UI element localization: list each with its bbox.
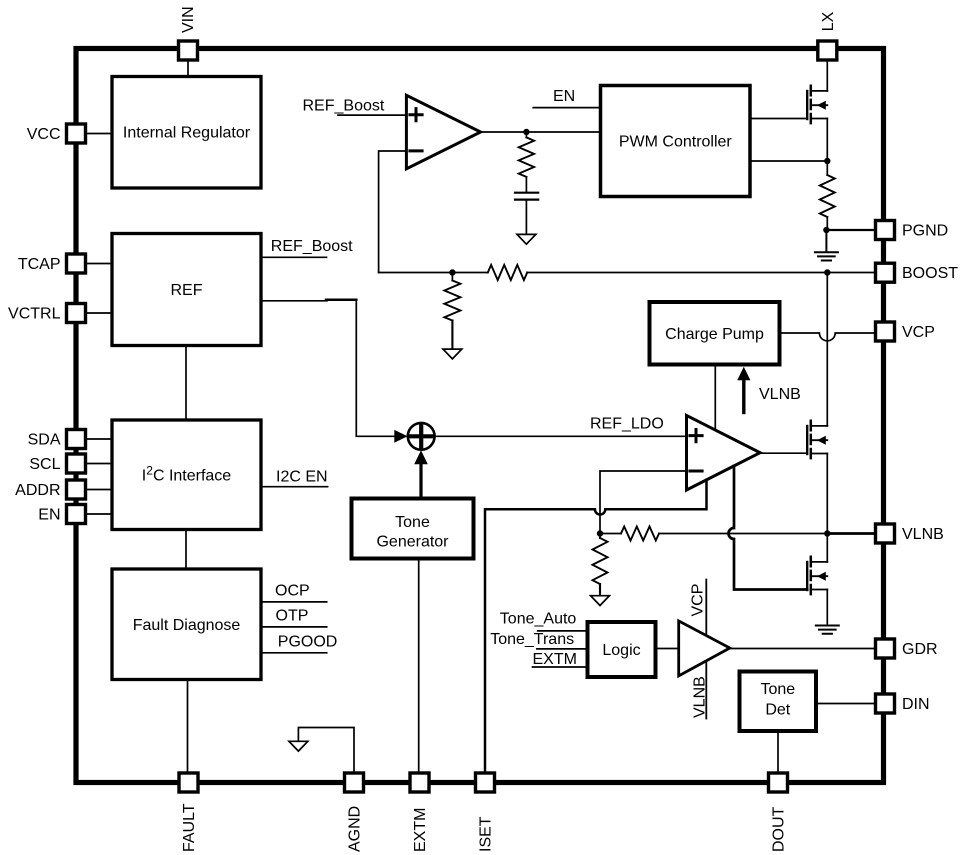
svg-text:TCAP: TCAP [18, 256, 61, 273]
pin SCL [67, 454, 86, 473]
svg-text:Det: Det [765, 701, 790, 718]
wire VLNB label line from buffer bottom [705, 661, 707, 719]
wire Charge Pump bottom to op-amp supply [714, 365, 716, 431]
svg-text:GDR: GDR [902, 641, 938, 658]
pin SDA [67, 430, 86, 449]
ground arrow under C1 [517, 234, 536, 244]
wire PWM lower output to Q1 source node [750, 160, 827, 162]
wire REF to I2C [185, 346, 187, 421]
wire ADDR to I2C [86, 489, 112, 491]
node Q1 source junction [824, 158, 830, 164]
svg-text:SCL: SCL [29, 456, 60, 473]
wire gate feedback with hop to Q3 gate [729, 466, 808, 590]
svg-text:OCP: OCP [275, 583, 310, 600]
pin DIN [876, 694, 895, 713]
wire VLNB node to Q3 drain [826, 534, 828, 562]
wire LX pin to Q1 drain [826, 61, 828, 91]
buffer U3 gate driver [679, 621, 730, 676]
wire PGND node to PGND pin [826, 229, 875, 231]
pin VIN [179, 41, 198, 60]
wire Q2 source to VLNB node [826, 454, 828, 534]
svg-text:VCP: VCP [690, 584, 707, 617]
chip boundary [76, 49, 884, 783]
ground arrow under R6 [591, 596, 610, 606]
wire BOOST node down to Q2 drain [826, 273, 828, 426]
ground arrow under R3 [443, 349, 462, 359]
transistor Q3 pull-down device [807, 557, 827, 594]
svg-text:EN: EN [38, 507, 60, 524]
wire comparator - feedback to BOOST net [379, 151, 407, 273]
ground Q3 symbol [816, 626, 839, 634]
transistor Q1 high-side switch [807, 86, 827, 123]
block U_TG Tone Generator [352, 499, 474, 559]
arrow VLNB into Charge Pump [742, 379, 745, 413]
wire Tone Generator to EXTM pin [418, 559, 420, 773]
svg-text:SDA: SDA [28, 432, 61, 449]
wire REF_Boost stub from REF [261, 256, 327, 258]
wire EN stub into PWM [533, 107, 600, 109]
wire buffer to GDR pin [730, 648, 875, 650]
svg-text:AGND: AGND [347, 806, 364, 852]
wire PGOOD stub [261, 652, 327, 654]
svg-text:LX: LX [820, 11, 837, 31]
svg-text:I2C EN: I2C EN [276, 469, 328, 486]
svg-text:Internal Regulator: Internal Regulator [123, 125, 251, 142]
svg-text:Logic: Logic [602, 642, 640, 659]
wire op-amp output to Q2 gate [760, 452, 807, 454]
wire Tone_Trans stub [537, 648, 588, 650]
wire Q1 source to R4 [826, 119, 828, 176]
wire REF_LDO net: summing node to op-amp + input [435, 435, 687, 437]
block U_PWM PWM Controller [601, 86, 751, 197]
svg-text:Tone: Tone [395, 514, 430, 531]
wire comparator output to PWM [481, 131, 601, 133]
pin ISET [476, 773, 495, 792]
svg-text:DOUT: DOUT [771, 806, 788, 852]
wire Q3 source to ground [826, 590, 828, 626]
wire op-amp - feedback [600, 471, 687, 534]
transistor Q2 LNB pass device [807, 421, 827, 458]
wire EXTM stub [533, 666, 588, 668]
wire VCP label line to buffer top [705, 580, 707, 636]
svg-text:REF_LDO: REF_LDO [590, 416, 664, 433]
svg-text:EXTM: EXTM [412, 808, 429, 852]
wire EN pin to I2C [86, 513, 112, 515]
svg-text:ADDR: ADDR [15, 482, 60, 499]
wire Charge Pump to VCP pin with hop [780, 333, 876, 341]
pin TCAP [67, 254, 86, 273]
arrow Tone Generator into summing node [419, 463, 422, 499]
wire OCP stub [261, 601, 327, 603]
pin EN [67, 505, 86, 524]
node BOOST right junction [824, 269, 830, 275]
svg-text:REF: REF [171, 282, 203, 299]
svg-text:VCC: VCC [27, 126, 61, 143]
wire SDA to I2C [86, 438, 112, 440]
pins: squares on boundary [67, 41, 895, 792]
wire I2C to Fault Diagnose [185, 530, 187, 570]
wire REF output to summing node [261, 300, 327, 302]
block U_Fault Fault Diagnose [112, 569, 261, 680]
wire SCL to I2C [86, 463, 112, 465]
wire VIN to Internal Regulator [187, 61, 189, 77]
pin FAULT [179, 773, 198, 792]
wire REF_Boost into comparator + input [338, 114, 406, 116]
wire node to R5 [600, 533, 621, 535]
svg-text:EXTM: EXTM [533, 651, 577, 668]
resistor R1 [519, 137, 534, 177]
op-amp U1 boost comparator [406, 95, 480, 169]
wire node to R1 [525, 132, 527, 137]
svg-text:ISET: ISET [478, 816, 495, 852]
svg-text:VCTRL: VCTRL [8, 306, 61, 323]
svg-text:PWM Controller: PWM Controller [619, 134, 733, 151]
svg-text:VLNB: VLNB [692, 676, 709, 718]
wire BOOST net left segment [379, 272, 488, 274]
resistor R5 [621, 527, 659, 541]
pin GDR [876, 639, 895, 658]
resistor R3 [444, 281, 460, 321]
resistor R6 [599, 534, 601, 539]
svg-text:Tone_Auto: Tone_Auto [500, 611, 577, 628]
svg-text:PGOOD: PGOOD [278, 633, 338, 650]
node PGND junction [823, 227, 829, 233]
svg-text:Generator: Generator [376, 534, 449, 551]
wire Tone Det to DIN pin [816, 703, 875, 705]
svg-text:VCP: VCP [902, 324, 935, 341]
resistor R4 [820, 175, 835, 217]
pin VCP [876, 322, 895, 341]
wire VCC to Internal Regulator [86, 133, 112, 135]
wire ISET pin to op-amp bottom [485, 480, 707, 773]
pin BOOST [876, 263, 895, 282]
block U_TD Tone Det [740, 672, 817, 732]
svg-text:DIN: DIN [902, 696, 930, 713]
svg-text:PGND: PGND [902, 223, 948, 240]
pin VCC [67, 124, 86, 143]
wire divider node down [451, 273, 453, 281]
pin PGND [876, 221, 895, 240]
svg-text:REF_Boost: REF_Boost [271, 238, 353, 255]
block U_Logic Logic [588, 622, 656, 677]
block U_REF REF [112, 234, 261, 346]
svg-text:EN: EN [553, 88, 575, 105]
wire R4 to PGND node [826, 217, 828, 230]
svg-text:FAULT: FAULT [181, 803, 198, 852]
wire VCTRL to REF [86, 312, 112, 314]
block U_I2C I2C Interface [112, 420, 261, 530]
svg-text:Tone_Trans: Tone_Trans [490, 631, 574, 648]
svg-text:Tone: Tone [760, 681, 795, 698]
svg-text:VLNB: VLNB [759, 386, 801, 403]
wire PWM upper output to Q1 gate [750, 118, 807, 120]
wire Fault Diagnose to FAULT pin [187, 680, 189, 773]
block U_IntReg Internal Regulator [112, 77, 261, 189]
svg-text:VLNB: VLNB [902, 526, 944, 543]
pin DOUT [769, 773, 788, 792]
block U_CP Charge Pump [650, 302, 780, 365]
wire BOOST net right segment to BOOST pin [527, 272, 875, 274]
node feedback divider junction [597, 530, 603, 536]
wire I2C EN stub [261, 486, 328, 488]
pin VCTRL [67, 304, 86, 323]
wire R3 to ground arrow [451, 321, 453, 350]
pin VLNB [876, 524, 895, 543]
pin ADDR [67, 480, 86, 499]
arrow into summing node [394, 430, 407, 443]
svg-text:REF_Boost: REF_Boost [303, 98, 385, 115]
svg-text:I2C Interface: I2C Interface [142, 464, 232, 485]
node BOOST divider junction [449, 269, 455, 275]
node S1 summing junction [408, 423, 435, 450]
op-amp U2 REF_LDO amplifier [687, 415, 761, 490]
pin AGND [345, 773, 364, 792]
svg-text:OTP: OTP [276, 608, 309, 625]
svg-text:Fault Diagnose: Fault Diagnose [133, 617, 241, 634]
capacitor C1 [515, 193, 538, 200]
node comparator output junction [523, 129, 529, 135]
wire R1 to C1 [525, 177, 527, 193]
wire TCAP to REF [86, 263, 112, 265]
wire Tone Det to DOUT pin [777, 731, 779, 773]
svg-text:VIN: VIN [180, 6, 197, 33]
svg-text:BOOST: BOOST [902, 265, 958, 282]
ground PGND symbol [815, 230, 838, 261]
pin LX [818, 41, 837, 60]
wire Logic inputs: Tone_Auto stub [538, 630, 588, 632]
wire R5 to VLNB node [659, 533, 827, 535]
pin EXTM [410, 773, 429, 792]
ground AGND symbol [298, 728, 354, 773]
wire OTP stub [261, 626, 327, 628]
wire R6 to ground arrow [599, 584, 601, 596]
node VLNB junction [824, 530, 830, 536]
wire VLNB node to VLNB pin [827, 532, 875, 535]
resistor R2 [488, 265, 527, 280]
wire Logic to buffer [656, 648, 679, 650]
svg-text:Charge Pump: Charge Pump [665, 326, 764, 343]
wire C1 to ground arrow [525, 200, 527, 235]
